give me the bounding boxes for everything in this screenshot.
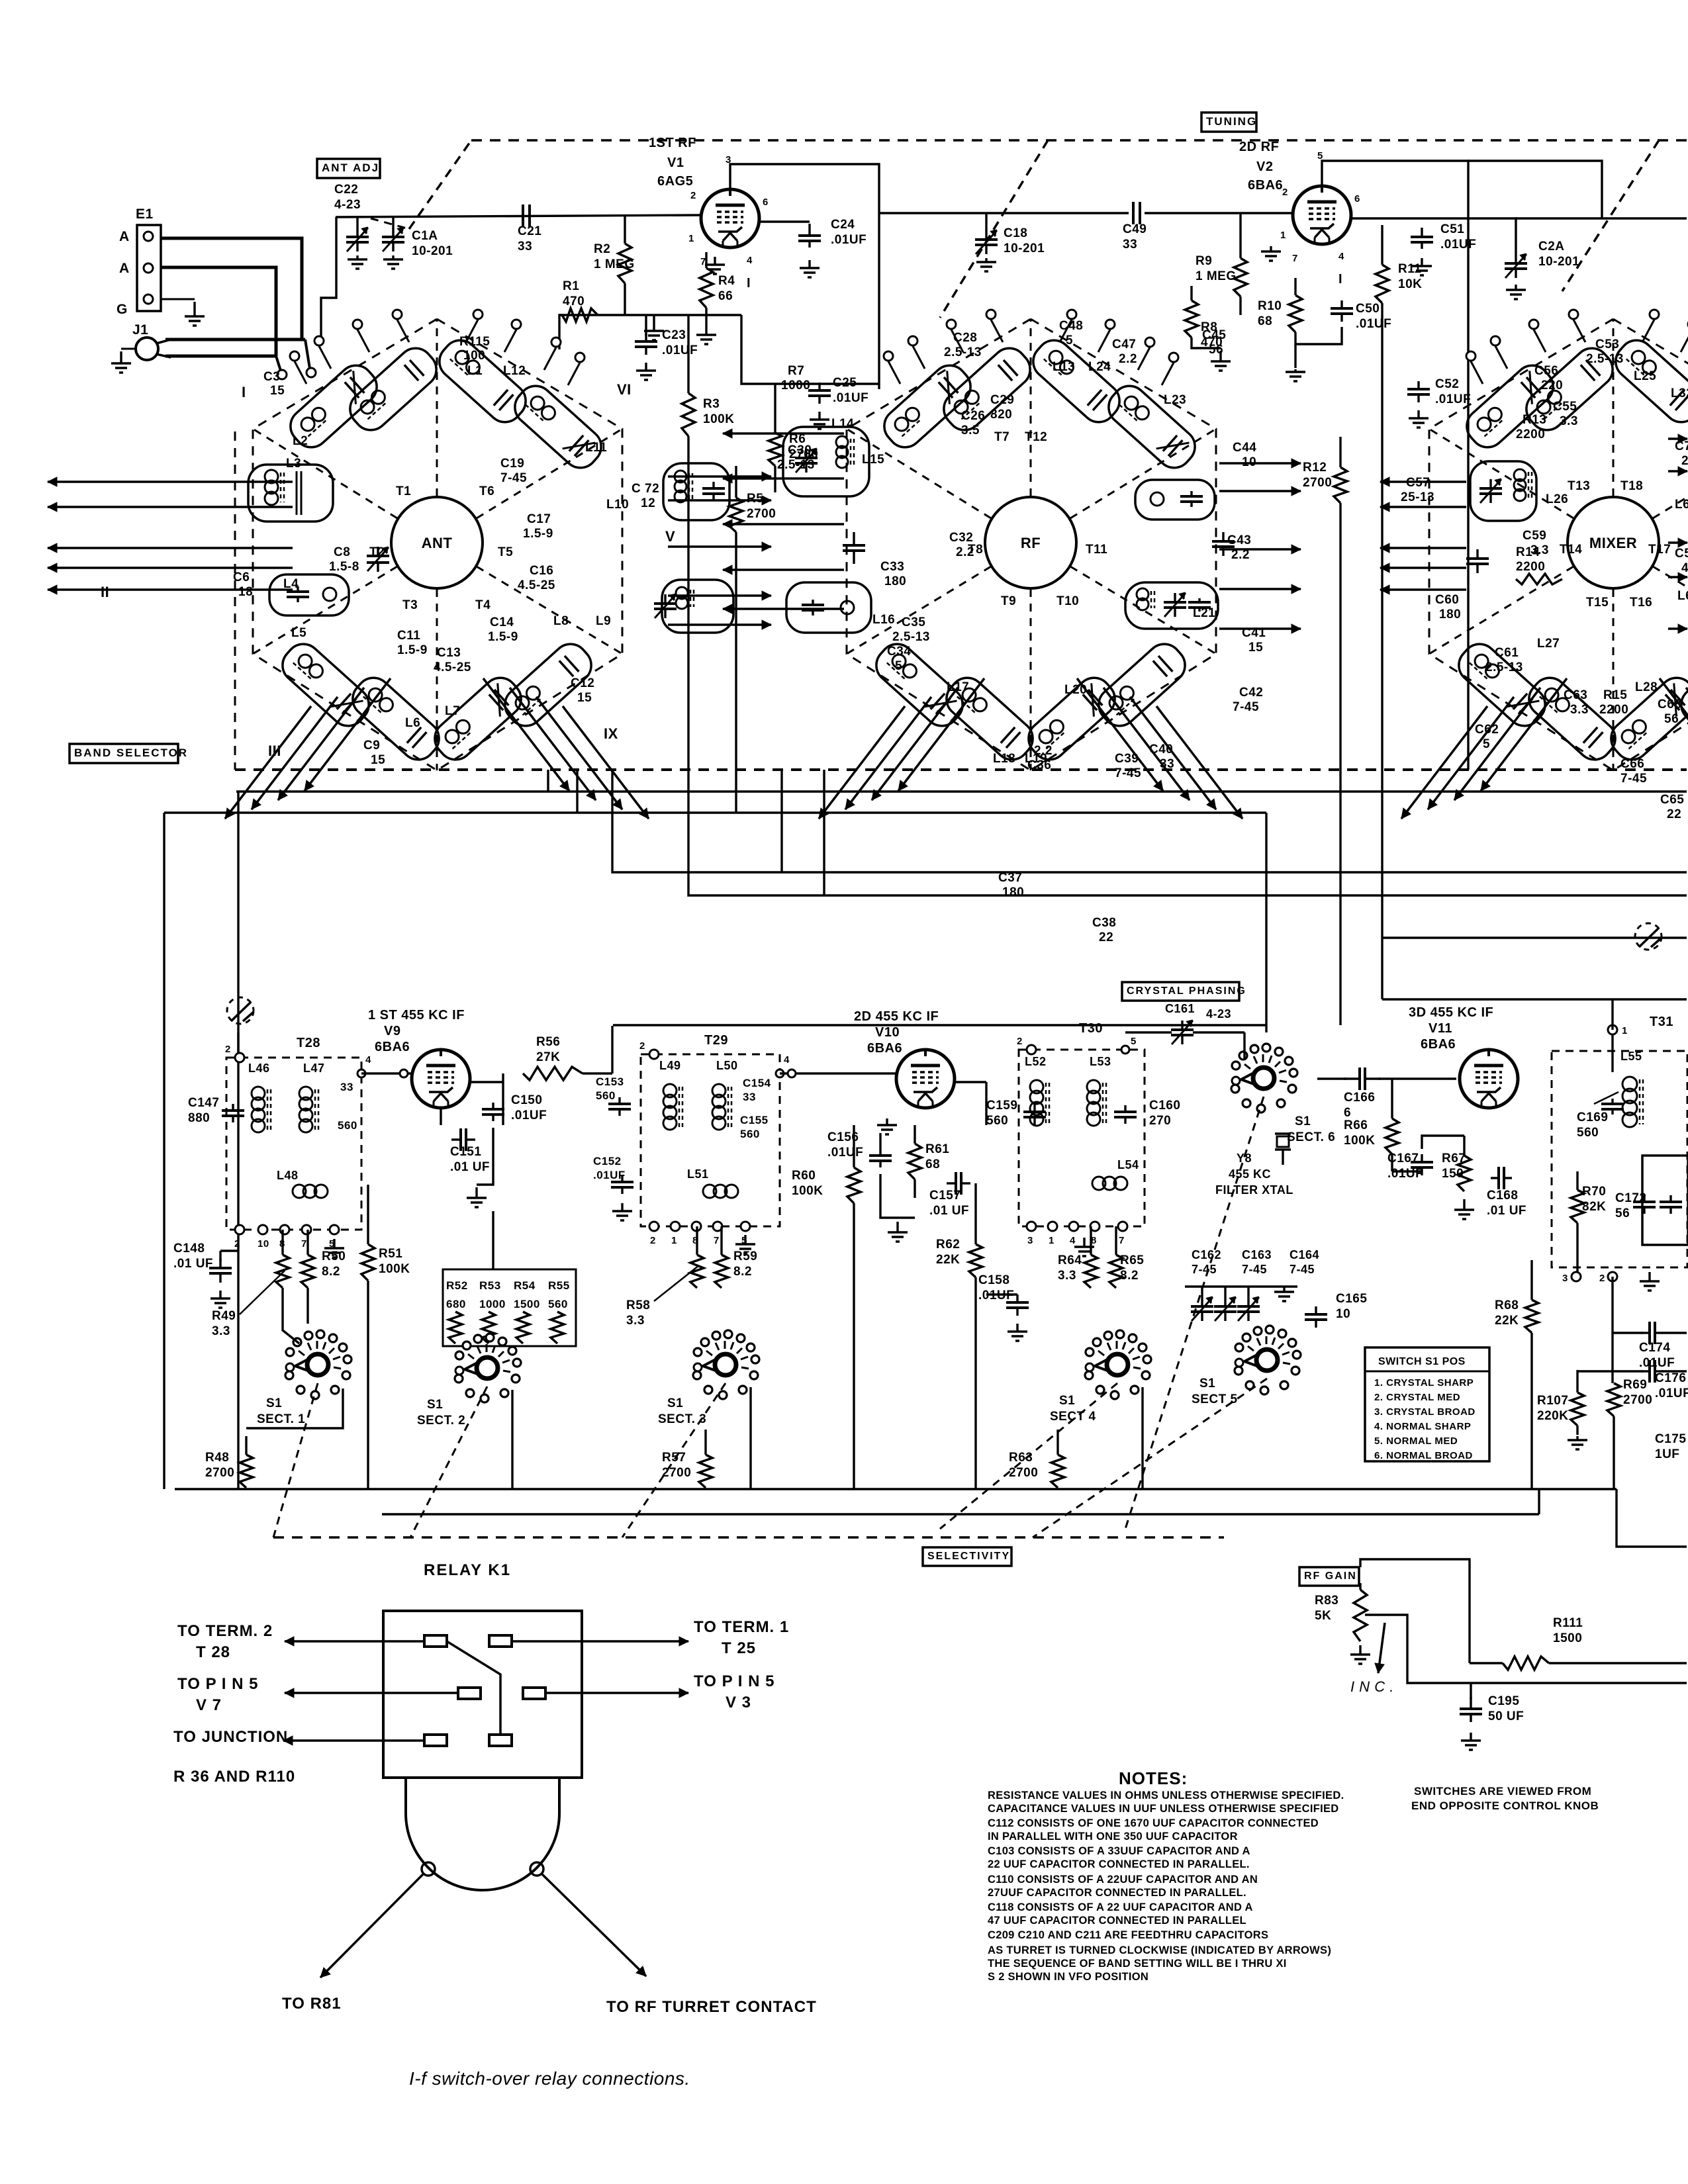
svg-text:R54: R54 <box>514 1279 536 1292</box>
svg-text:T30: T30 <box>1079 1021 1103 1036</box>
svg-text:MIXER: MIXER <box>1589 535 1637 551</box>
wire T28 to V9 grid <box>361 1072 412 1074</box>
R61 box wire <box>879 1133 881 1149</box>
svg-text:R83: R83 <box>1315 1594 1338 1608</box>
turret ANT dashed outline <box>253 319 622 770</box>
turret3 left cap C59 <box>1476 549 1478 559</box>
svg-text:V1: V1 <box>667 156 684 170</box>
T30 top pin 2 <box>1027 1045 1036 1054</box>
wire V9 plate node down <box>502 1082 504 1125</box>
svg-text:C161: C161 <box>1165 1002 1195 1015</box>
svg-text:T16: T16 <box>1630 596 1652 610</box>
svg-text:47: 47 <box>1681 561 1688 575</box>
wire screen bus <box>741 315 879 384</box>
turret3 right arrows <box>1668 437 1687 440</box>
svg-text:T14: T14 <box>1560 543 1582 557</box>
bottom rail 2 <box>382 1513 1539 1515</box>
svg-text:C152: C152 <box>593 1155 622 1167</box>
svg-text:R69: R69 <box>1623 1378 1647 1392</box>
svg-text:R57: R57 <box>662 1451 686 1465</box>
svg-text:4: 4 <box>784 1054 790 1066</box>
switch S1 SECT.1 <box>307 1354 328 1375</box>
svg-text:1UF: 1UF <box>1655 1447 1679 1461</box>
svg-text:4: 4 <box>747 255 753 266</box>
coil cartridge upper-right b <box>1102 379 1202 475</box>
svg-text:C11: C11 <box>397 629 420 643</box>
svg-text:C48: C48 <box>1059 319 1083 333</box>
svg-text:V: V <box>665 528 675 545</box>
svg-text:6BA6: 6BA6 <box>867 1041 902 1056</box>
svg-text:7: 7 <box>1292 253 1298 264</box>
arrow to RB1 <box>320 1874 423 1978</box>
svg-text:I: I <box>242 384 246 400</box>
svg-text:2700: 2700 <box>662 1466 691 1480</box>
svg-text:.01UF: .01UF <box>833 391 868 405</box>
svg-text:NOTES:: NOTES: <box>1119 1768 1188 1788</box>
svg-text:L28: L28 <box>1635 680 1658 694</box>
resistor ladder box R52-R55 <box>443 1269 576 1346</box>
turret2 left coil L16 <box>786 582 871 633</box>
svg-text:I: I <box>747 276 751 291</box>
svg-text:6BA6: 6BA6 <box>375 1040 410 1054</box>
svg-text:R59: R59 <box>733 1250 757 1263</box>
svg-text:T17: T17 <box>1648 543 1671 557</box>
mech coupling symbol right <box>1635 923 1662 950</box>
turret3 left resistor R14 2200 <box>1516 574 1562 584</box>
svg-text:C110 CONSISTS OF A 22UUF: C110 CONSISTS OF A 22UUF CAPACITOR AND A… <box>988 1874 1258 1886</box>
svg-text:.01UF: .01UF <box>1639 1356 1675 1370</box>
svg-text:L47: L47 <box>303 1062 325 1075</box>
svg-text:15: 15 <box>577 691 592 705</box>
svg-text:1 MEG: 1 MEG <box>1196 269 1237 283</box>
svg-text:2700: 2700 <box>1303 476 1332 490</box>
svg-text:560: 560 <box>986 1114 1008 1128</box>
wire ladder top <box>492 1231 494 1269</box>
svg-text:V10: V10 <box>875 1025 900 1040</box>
svg-text:R52: R52 <box>446 1279 468 1292</box>
svg-text:T6: T6 <box>479 484 494 498</box>
svg-text:R65: R65 <box>1120 1253 1144 1267</box>
coil cartridge lower-left b <box>1522 671 1622 767</box>
switch S1 SECT.3 <box>715 1354 736 1375</box>
svg-text:SECT. 6: SECT. 6 <box>1287 1130 1335 1144</box>
svg-text:2.5-13: 2.5-13 <box>892 630 930 644</box>
svg-text:T3: T3 <box>402 598 418 612</box>
ground above C164 <box>1283 1287 1285 1292</box>
svg-text:3.3: 3.3 <box>1560 414 1578 428</box>
wire V9 screen <box>440 1108 442 1125</box>
svg-text:1500: 1500 <box>1553 1631 1582 1645</box>
svg-text:47 UUF CAPACITOR CONNECTED: 47 UUF CAPACITOR CONNECTED IN PARALLEL <box>988 1915 1246 1927</box>
svg-text:L49: L49 <box>659 1059 681 1072</box>
svg-text:180: 180 <box>1002 886 1024 899</box>
ground C151 return <box>477 1128 493 1185</box>
turret MIXER center circle <box>1568 497 1659 588</box>
svg-text:2: 2 <box>1282 187 1288 198</box>
switch contacts upper <box>884 351 893 361</box>
svg-text:2200: 2200 <box>1599 703 1628 717</box>
svg-text:.01 UF: .01 UF <box>1487 1204 1526 1218</box>
svg-text:T15: T15 <box>1586 596 1609 610</box>
svg-text:R7: R7 <box>788 364 804 378</box>
arrow to TERM 1 T25 <box>512 1640 688 1643</box>
svg-text:3: 3 <box>1027 1235 1033 1246</box>
wire C2A node <box>1417 218 1516 254</box>
relay K1 body <box>383 1611 582 1778</box>
svg-text:T13: T13 <box>1568 479 1590 493</box>
band selector bottom dashed line <box>235 768 1687 771</box>
T29 top pin 2 <box>649 1050 659 1059</box>
svg-text:C51: C51 <box>1440 222 1464 236</box>
svg-text:6: 6 <box>1354 193 1360 205</box>
right rail down <box>1617 1489 1687 1547</box>
svg-text:3.3: 3.3 <box>1570 703 1589 717</box>
svg-text:L3: L3 <box>286 457 301 471</box>
svg-text:4.5-25: 4.5-25 <box>518 578 555 592</box>
coil cartridge upper-right a <box>1609 334 1688 430</box>
svg-text:C155: C155 <box>740 1114 769 1126</box>
svg-text:2: 2 <box>234 1238 240 1250</box>
svg-text:A: A <box>119 261 130 276</box>
coil cartridge upper-left a <box>877 359 978 455</box>
svg-text:180: 180 <box>1439 608 1461 621</box>
svg-text:.01UF: .01UF <box>511 1109 547 1122</box>
dashed links from wafers <box>273 1383 318 1537</box>
svg-text:J1: J1 <box>132 322 148 338</box>
svg-text:R55: R55 <box>548 1279 570 1292</box>
relay lug left <box>422 1862 435 1876</box>
svg-text:SELECTIVITY: SELECTIVITY <box>927 1551 1010 1562</box>
relay contact b <box>489 1635 512 1647</box>
svg-text:C54: C54 <box>1675 547 1688 561</box>
bottom rail of IF strip <box>175 1488 1617 1490</box>
svg-text:5: 5 <box>1483 737 1490 751</box>
svg-text:S1: S1 <box>1059 1394 1075 1408</box>
svg-text:100: 100 <box>463 349 485 363</box>
svg-text:L25: L25 <box>1634 369 1656 383</box>
svg-text:R50: R50 <box>322 1250 346 1263</box>
svg-text:R49: R49 <box>212 1309 236 1323</box>
svg-text:CAPACITANCE VALUES IN UUF: CAPACITANCE VALUES IN UUF UNLESS OTHERWI… <box>988 1803 1339 1815</box>
svg-text:C165: C165 <box>1336 1292 1367 1306</box>
svg-text:10: 10 <box>258 1238 269 1250</box>
mech coupling symbol left <box>227 997 254 1024</box>
switch contacts upper <box>1466 351 1476 361</box>
svg-text:I-f switch-over relay connecti: I-f switch-over relay connections. <box>409 2068 690 2089</box>
coil cartridge upper-left a <box>1460 359 1560 455</box>
selectivity dashed bus <box>273 1536 1224 1539</box>
svg-text:3.3: 3.3 <box>626 1314 645 1328</box>
relay armature link <box>447 1641 500 1735</box>
svg-text:T11: T11 <box>1086 543 1107 557</box>
svg-text:L24: L24 <box>1088 360 1111 374</box>
svg-text:C153: C153 <box>596 1075 624 1088</box>
switch contacts upper <box>290 351 299 361</box>
wire C22 branch down <box>321 217 336 340</box>
svg-text:T 25: T 25 <box>722 1639 756 1657</box>
svg-text:A: A <box>119 229 130 244</box>
svg-text:4: 4 <box>365 1054 371 1066</box>
ground below R4 <box>705 331 707 335</box>
turret contact from J1 top <box>305 340 310 369</box>
svg-text:3.3: 3.3 <box>1058 1269 1076 1283</box>
T28 top pin 2 <box>235 1053 244 1062</box>
svg-text:RESISTANCE VALUES IN OHMS: RESISTANCE VALUES IN OHMS UNLESS OTHERWI… <box>988 1790 1344 1801</box>
svg-text:R15: R15 <box>1603 688 1627 702</box>
wire V2 plate to C51 <box>1351 217 1417 219</box>
svg-text:R12: R12 <box>1303 461 1327 475</box>
svg-text:2D RF: 2D RF <box>1239 140 1279 154</box>
turret3 left arrows <box>1380 480 1466 483</box>
wire C23 tap <box>645 315 647 336</box>
svg-text:22K: 22K <box>936 1253 960 1267</box>
wire E1-A2 to turret <box>161 267 276 356</box>
svg-text:T29: T29 <box>704 1033 728 1048</box>
coil cartridge upper-right a <box>432 334 533 430</box>
svg-text:C49: C49 <box>1123 222 1147 236</box>
svg-text:C103 CONSISTS OF A 33UUF: C103 CONSISTS OF A 33UUF CAPACITOR AND A <box>988 1845 1250 1857</box>
svg-text:27K: 27K <box>536 1050 560 1064</box>
svg-text:CRYSTAL PHASING: CRYSTAL PHASING <box>1127 985 1246 997</box>
svg-text:22: 22 <box>1667 807 1681 821</box>
coil cartridge lower-left a <box>275 637 376 733</box>
svg-text:4: 4 <box>1070 1235 1076 1246</box>
svg-text:.01UF: .01UF <box>662 343 698 357</box>
svg-text:TO JUNCTION: TO JUNCTION <box>173 1728 288 1746</box>
svg-text:L23: L23 <box>1164 393 1186 407</box>
svg-text:L62: L62 <box>1677 589 1688 603</box>
svg-text:L4: L4 <box>283 577 299 591</box>
svg-text:68: 68 <box>1258 314 1272 328</box>
svg-text:560: 560 <box>1577 1126 1599 1140</box>
svg-text:R51: R51 <box>379 1247 402 1261</box>
svg-text:AS TURRET IS TURNED CLOCKW: AS TURRET IS TURNED CLOCKWISE (INDICATED… <box>988 1944 1331 1956</box>
svg-text:TO R81: TO R81 <box>282 1995 342 2013</box>
turret3 left coil L26 <box>1470 461 1536 521</box>
ground at J1 <box>121 348 136 350</box>
arrows lower-right <box>483 678 569 791</box>
tuning linkage diagonal to C18 turret 2 <box>940 140 1048 318</box>
wire R2/R1 node bus <box>559 314 741 316</box>
SECT1 frame wire <box>246 1388 343 1428</box>
svg-text:2: 2 <box>650 1235 656 1246</box>
svg-text:.01 UF: .01 UF <box>173 1257 213 1271</box>
svg-text:C57: C57 <box>1406 476 1430 490</box>
svg-text:C9: C9 <box>363 739 380 752</box>
svg-text:T10: T10 <box>1056 594 1079 608</box>
svg-text:L6: L6 <box>405 716 420 730</box>
svg-text:L1: L1 <box>467 364 483 378</box>
svg-text:R61: R61 <box>925 1142 949 1156</box>
svg-text:TO P I N 5: TO P I N 5 <box>177 1675 259 1693</box>
ground at V1 cathode <box>714 257 716 265</box>
svg-text:SECT. 1: SECT. 1 <box>257 1412 305 1426</box>
SECT4 frame wire <box>1141 1387 1143 1489</box>
pointer R49 <box>240 1271 285 1314</box>
turret1 right coil L8/L9 C16 <box>662 580 733 633</box>
arrow to PIN 5 V3 <box>545 1692 688 1694</box>
relay contact f <box>489 1735 512 1746</box>
svg-text:V9: V9 <box>384 1024 400 1038</box>
coil cartridge upper-left b <box>343 341 444 437</box>
bus wire A <box>236 790 1687 792</box>
svg-text:7-45: 7-45 <box>1233 700 1259 714</box>
svg-text:56: 56 <box>1209 343 1223 357</box>
relay lug right <box>530 1862 543 1876</box>
coil cartridge lower-left a <box>869 637 970 733</box>
svg-text:C38: C38 <box>1092 916 1116 930</box>
svg-text:L54: L54 <box>1117 1158 1139 1171</box>
svg-text:C47: C47 <box>1112 338 1136 351</box>
wires crystal network <box>1243 1032 1245 1059</box>
wire right mid <box>1538 1489 1540 1514</box>
coil cartridge lower-left b <box>939 671 1040 767</box>
svg-text:L26: L26 <box>1546 492 1568 506</box>
svg-text:2: 2 <box>690 190 696 201</box>
SECT3 frame wire <box>749 1387 751 1489</box>
svg-text:TO TERM. 1: TO TERM. 1 <box>694 1618 789 1636</box>
svg-text:T 28: T 28 <box>196 1643 230 1661</box>
arrows lower-right <box>1660 678 1688 791</box>
svg-text:BAND SELECTOR: BAND SELECTOR <box>74 747 188 759</box>
svg-text:V2: V2 <box>1256 159 1273 174</box>
svg-text:2200: 2200 <box>1516 428 1545 441</box>
svg-text:100K: 100K <box>1344 1134 1375 1148</box>
T29 terminals <box>649 1222 659 1231</box>
coil cartridge upper-left b <box>1519 341 1620 437</box>
svg-text:1ST RF: 1ST RF <box>649 136 696 150</box>
ground R67 <box>1463 1199 1465 1210</box>
svg-text:1: 1 <box>1280 230 1286 241</box>
svg-text:2: 2 <box>1599 1273 1605 1284</box>
svg-text:R9: R9 <box>1196 254 1212 268</box>
svg-text:2.5-13: 2.5-13 <box>944 345 982 359</box>
feed vertical R12 to V10 bus <box>1339 770 1341 1025</box>
wire C158 <box>986 1293 1017 1295</box>
svg-text:L46: L46 <box>248 1062 270 1075</box>
T28 top pin 4 <box>357 1069 365 1077</box>
coil cartridge upper-right b <box>1684 379 1688 475</box>
svg-text:L21: L21 <box>1193 606 1215 620</box>
svg-text:C61: C61 <box>1495 646 1519 660</box>
wire RF gain top <box>1360 1559 1470 1663</box>
coil cartridge lower-left b <box>346 671 446 767</box>
svg-text:T12: T12 <box>1025 430 1047 444</box>
coil cartridge lower-right b <box>1674 637 1688 733</box>
svg-text:7-45: 7-45 <box>1289 1263 1315 1276</box>
svg-text:6. NORMAL BROAD: 6. NORMAL BROAD <box>1374 1450 1473 1461</box>
ground at E1 <box>161 298 195 300</box>
svg-text:TO P I N 5: TO P I N 5 <box>694 1672 775 1690</box>
svg-text:.01 UF: .01 UF <box>929 1204 969 1218</box>
svg-text:TUNING: TUNING <box>1206 115 1257 128</box>
svg-text:L20: L20 <box>1064 683 1087 697</box>
svg-text:6BA6: 6BA6 <box>1421 1037 1456 1052</box>
wire V1 to V2 bus <box>879 212 927 214</box>
svg-text:ANT ADJ: ANT ADJ <box>322 161 379 174</box>
svg-text:T5: T5 <box>498 545 513 559</box>
wire top of IF <box>237 1032 239 1058</box>
svg-text:L12: L12 <box>503 364 526 378</box>
svg-text:L15: L15 <box>862 453 884 467</box>
svg-text:2.5-13: 2.5-13 <box>777 458 815 472</box>
svg-text:R56: R56 <box>536 1035 560 1049</box>
crystal phasing label <box>1122 982 1239 1001</box>
svg-text:END OPPOSITE CONTROL KNOB: END OPPOSITE CONTROL KNOB <box>1411 1799 1599 1812</box>
svg-text:5. NORMAL MED: 5. NORMAL MED <box>1374 1435 1458 1447</box>
pointer R58 <box>654 1265 699 1301</box>
svg-text:1.5-9: 1.5-9 <box>523 527 553 541</box>
svg-text:455 KC: 455 KC <box>1229 1167 1271 1181</box>
svg-text:4-23: 4-23 <box>334 198 361 212</box>
svg-text:RF: RF <box>1021 535 1041 551</box>
svg-text:27UUF CAPACITOR CONNECTED: 27UUF CAPACITOR CONNECTED IN PARALLEL. <box>988 1887 1246 1899</box>
ground at R8 <box>1192 338 1221 348</box>
ground at T28 pin5 <box>333 1239 335 1248</box>
svg-text:L14: L14 <box>831 417 854 431</box>
turret1 left coil L4 with C6 <box>269 574 349 615</box>
svg-text:C19: C19 <box>500 457 524 471</box>
svg-text:TO RF TURRET CONTACT: TO RF TURRET CONTACT <box>606 1998 817 2016</box>
svg-text:C43: C43 <box>1227 533 1251 547</box>
svg-text:I: I <box>1338 272 1342 287</box>
svg-text:3.3: 3.3 <box>212 1324 230 1338</box>
turret1 left coil L3 <box>248 465 333 522</box>
svg-text:C3: C3 <box>263 370 280 384</box>
arrow to TERM 2 T28 <box>285 1640 424 1643</box>
svg-text:56: 56 <box>1615 1206 1630 1220</box>
tuning linkage diagonal to C1A <box>409 140 471 229</box>
svg-text:T2: T2 <box>369 545 385 559</box>
turret RF dashed outline <box>847 319 1216 770</box>
svg-text:L52: L52 <box>1025 1055 1047 1068</box>
ground at T31 <box>1648 1272 1650 1281</box>
svg-text:8.2: 8.2 <box>322 1265 340 1279</box>
svg-text:G: G <box>117 302 128 317</box>
svg-text:100K: 100K <box>379 1262 410 1276</box>
svg-text:C13: C13 <box>437 646 461 660</box>
svg-text:C50: C50 <box>1356 302 1380 316</box>
svg-text:C40: C40 <box>1149 743 1173 756</box>
svg-text:L16: L16 <box>872 613 895 627</box>
svg-text:1000: 1000 <box>479 1298 506 1310</box>
svg-text:T28: T28 <box>297 1036 320 1050</box>
wire J1 top to turret <box>165 338 305 341</box>
svg-text:560: 560 <box>740 1128 760 1140</box>
coil cartridge lower-right a <box>1021 671 1122 767</box>
svg-text:R58: R58 <box>626 1298 650 1312</box>
svg-text:T31: T31 <box>1650 1015 1673 1029</box>
svg-text:V11: V11 <box>1429 1021 1452 1036</box>
turret2 right coil L22 C44 <box>1135 480 1215 520</box>
svg-text:R10: R10 <box>1258 299 1282 313</box>
svg-text:15: 15 <box>371 753 385 767</box>
left rail vertical x360 <box>237 792 239 1489</box>
svg-text:FILTER XTAL: FILTER XTAL <box>1215 1183 1293 1197</box>
relay contact e <box>424 1735 447 1746</box>
svg-text:1.5-8: 1.5-8 <box>329 560 359 574</box>
svg-text:C60: C60 <box>1435 593 1459 607</box>
switch S1 SECT.2 <box>477 1357 498 1379</box>
svg-text:C24: C24 <box>831 218 855 232</box>
svg-text:C118 CONSISTS OF A 22 UUF: C118 CONSISTS OF A 22 UUF CAPACITOR AND … <box>988 1901 1253 1913</box>
coil cartridge upper-left a <box>283 359 384 455</box>
svg-text:2.2: 2.2 <box>1119 352 1137 366</box>
switch S1 SECT.6 rotary <box>1253 1068 1274 1089</box>
svg-text:R107: R107 <box>1537 1394 1568 1408</box>
svg-text:C56: C56 <box>1534 364 1558 378</box>
svg-text:2: 2 <box>225 1044 231 1055</box>
